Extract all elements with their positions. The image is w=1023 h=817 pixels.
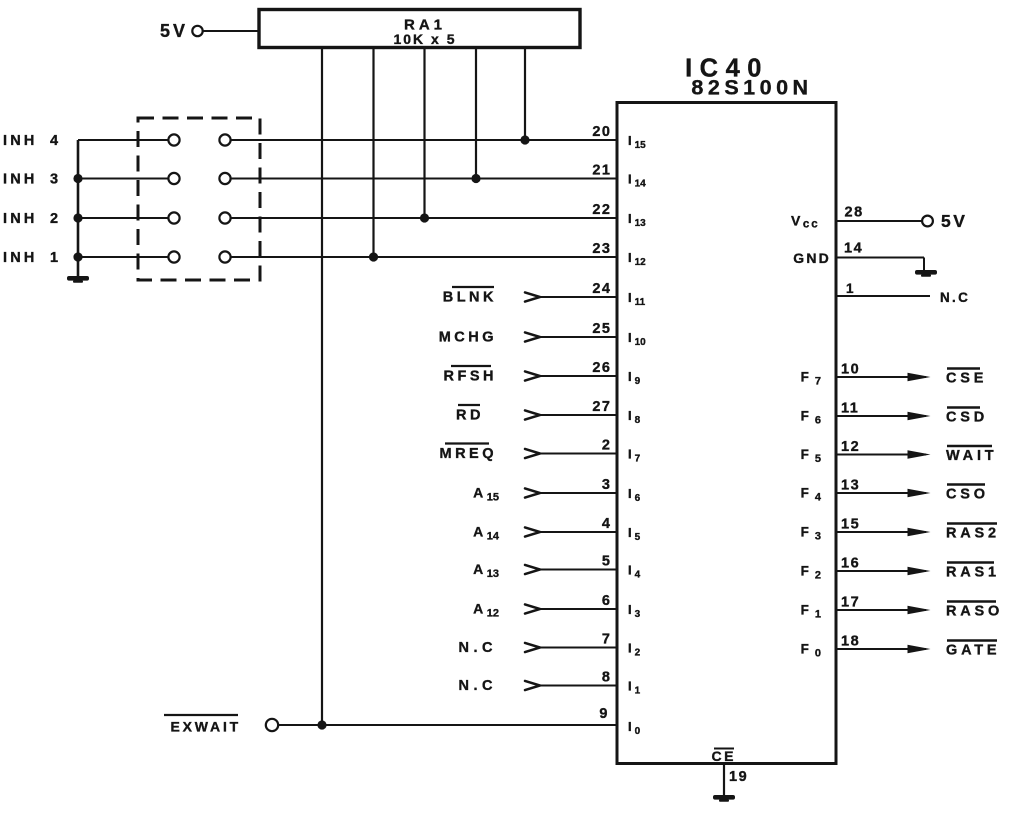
svg-text:21: 21	[592, 163, 611, 179]
svg-text:GND: GND	[793, 250, 831, 266]
svg-text:N.C: N.C	[940, 290, 970, 305]
svg-text:N.C: N.C	[459, 678, 497, 694]
svg-text:CE: CE	[712, 748, 736, 764]
svg-text:CSE: CSE	[946, 371, 987, 387]
svg-text:I10: I10	[628, 330, 646, 348]
svg-text:4: 4	[602, 516, 612, 532]
svg-text:RFSH: RFSH	[444, 369, 497, 385]
svg-text:A14: A14	[473, 524, 500, 543]
svg-text:F1: F1	[801, 603, 821, 621]
svg-text:GATE: GATE	[946, 643, 1000, 659]
svg-text:I14: I14	[628, 172, 646, 190]
svg-text:I2: I2	[628, 641, 641, 659]
svg-text:I7: I7	[628, 447, 641, 465]
svg-text:I13: I13	[628, 211, 646, 229]
svg-text:WAIT: WAIT	[946, 448, 997, 464]
svg-text:19: 19	[729, 769, 748, 785]
svg-text:22: 22	[592, 202, 611, 218]
svg-text:F0: F0	[801, 642, 821, 660]
svg-text:BLNK: BLNK	[443, 290, 497, 306]
svg-text:RAS2: RAS2	[946, 526, 1000, 542]
svg-text:RAS1: RAS1	[946, 565, 1000, 581]
svg-text:2: 2	[50, 211, 58, 227]
svg-text:F3: F3	[801, 525, 821, 543]
svg-text:I1: I1	[628, 679, 641, 697]
svg-text:18: 18	[841, 634, 860, 650]
svg-text:INH: INH	[3, 250, 38, 266]
svg-text:6: 6	[602, 593, 612, 609]
svg-text:28: 28	[845, 205, 864, 221]
svg-text:I12: I12	[628, 250, 646, 268]
svg-text:MREQ: MREQ	[440, 446, 498, 462]
svg-text:16: 16	[841, 556, 860, 572]
svg-text:15: 15	[841, 517, 860, 533]
svg-text:INH: INH	[3, 133, 38, 149]
svg-text:I9: I9	[628, 369, 641, 387]
svg-text:Vcc: Vcc	[791, 213, 820, 231]
svg-text:7: 7	[602, 632, 612, 648]
svg-text:F4: F4	[801, 486, 822, 504]
svg-text:26: 26	[592, 360, 611, 376]
svg-text:5V: 5V	[941, 211, 967, 231]
svg-text:I4: I4	[628, 563, 641, 581]
svg-text:A13: A13	[473, 561, 499, 580]
svg-text:A12: A12	[473, 601, 499, 620]
svg-text:F5: F5	[801, 447, 821, 465]
svg-text:3: 3	[602, 477, 612, 493]
svg-text:N.C: N.C	[459, 640, 497, 656]
svg-text:INH: INH	[3, 211, 38, 227]
svg-text:I15: I15	[628, 133, 646, 151]
svg-text:13: 13	[841, 478, 860, 494]
svg-text:4: 4	[50, 133, 58, 149]
svg-text:RD: RD	[456, 408, 484, 424]
svg-text:I11: I11	[628, 290, 646, 308]
svg-text:F7: F7	[801, 370, 821, 388]
svg-text:10: 10	[841, 362, 860, 378]
svg-text:8: 8	[602, 670, 612, 686]
svg-text:5V: 5V	[160, 21, 188, 41]
svg-text:I8: I8	[628, 408, 641, 426]
svg-text:17: 17	[841, 595, 860, 611]
svg-text:I6: I6	[628, 486, 641, 504]
svg-text:12: 12	[841, 439, 860, 455]
svg-text:2: 2	[602, 438, 612, 454]
svg-text:25: 25	[592, 321, 611, 337]
svg-text:20: 20	[592, 124, 611, 140]
svg-text:F6: F6	[801, 409, 821, 427]
svg-text:I5: I5	[628, 525, 641, 543]
svg-text:5: 5	[602, 554, 612, 570]
svg-text:I3: I3	[628, 602, 641, 620]
svg-text:14: 14	[844, 241, 863, 257]
svg-text:10K x 5: 10K x 5	[393, 31, 456, 47]
svg-text:A15: A15	[473, 485, 499, 504]
svg-text:CSO: CSO	[946, 487, 989, 503]
svg-text:1: 1	[846, 281, 854, 296]
svg-text:CSD: CSD	[946, 410, 988, 426]
svg-text:23: 23	[592, 241, 611, 257]
svg-text:1: 1	[50, 250, 58, 266]
svg-text:RASO: RASO	[946, 604, 1003, 620]
svg-text:11: 11	[841, 401, 859, 417]
svg-text:82S100N: 82S100N	[691, 76, 812, 100]
svg-text:I0: I0	[628, 719, 641, 737]
svg-text:24: 24	[592, 281, 611, 297]
svg-text:INH: INH	[3, 172, 38, 188]
svg-text:MCHG: MCHG	[439, 330, 497, 346]
svg-text:27: 27	[592, 399, 611, 415]
svg-text:3: 3	[50, 172, 58, 188]
svg-text:F2: F2	[801, 564, 821, 582]
svg-text:EXWAIT: EXWAIT	[171, 719, 241, 735]
svg-text:9: 9	[599, 706, 609, 722]
